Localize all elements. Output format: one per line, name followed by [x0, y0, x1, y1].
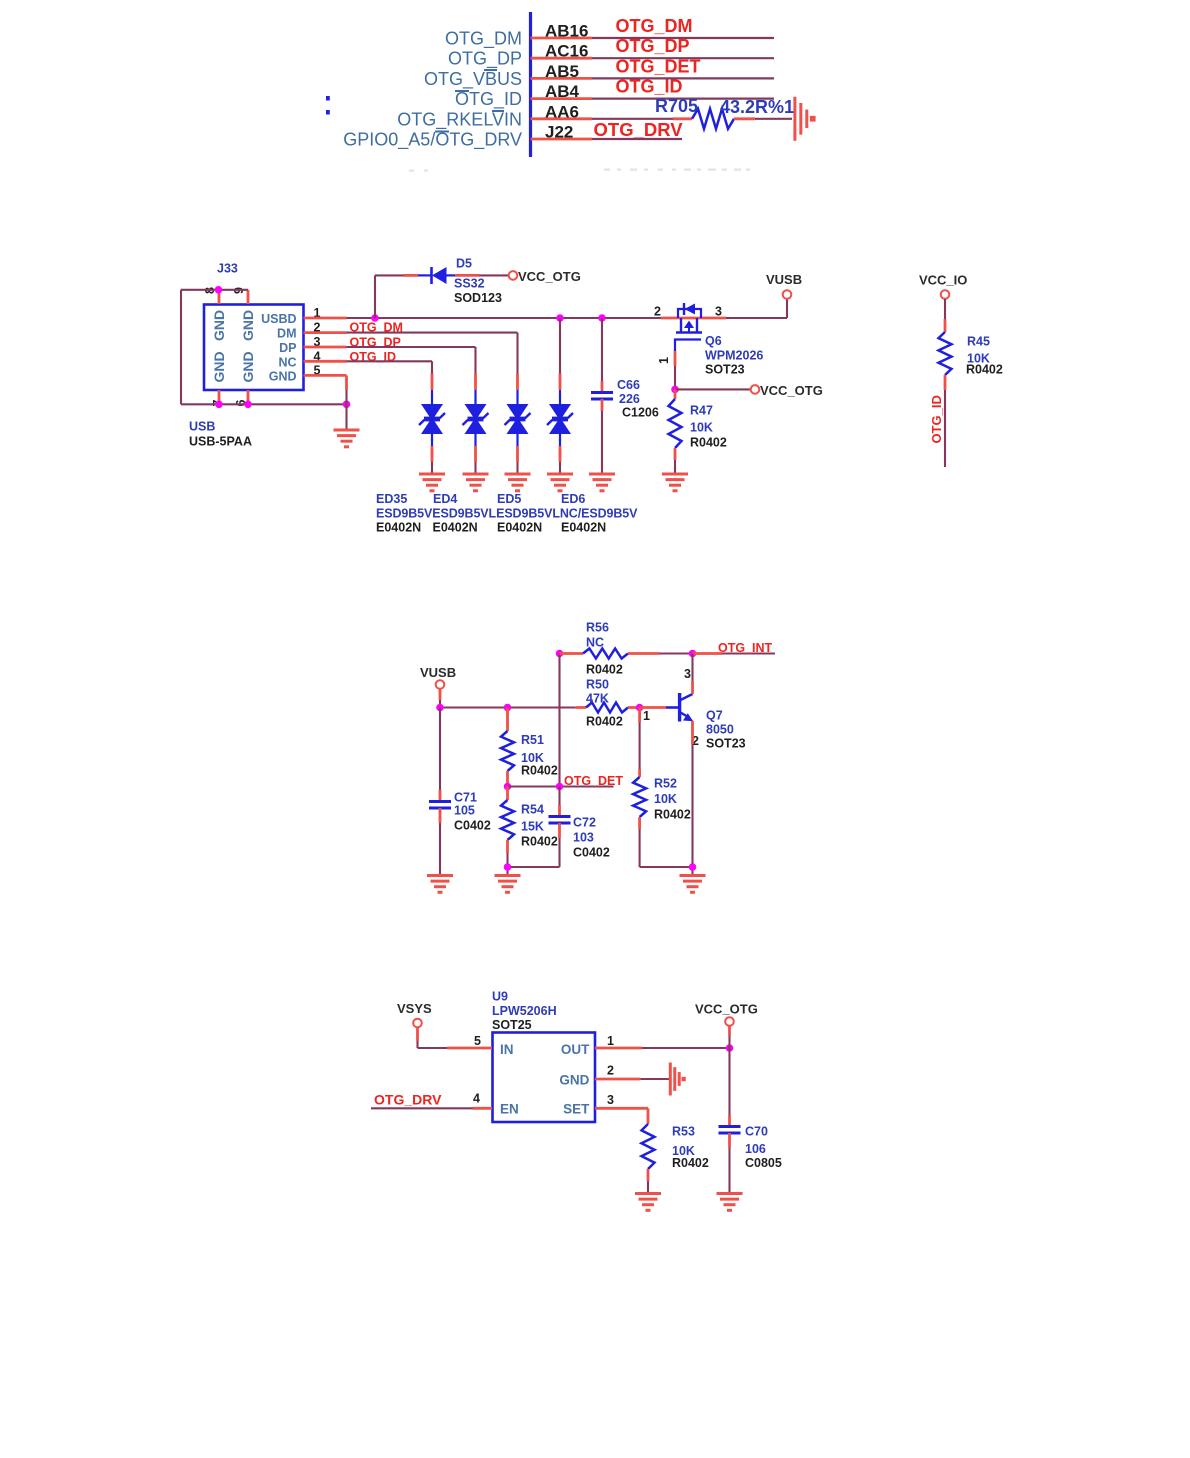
svg-text:D5: D5: [456, 257, 472, 271]
svg-text:10K: 10K: [690, 421, 713, 435]
labels E0402N footprints: [376, 521, 606, 535]
pin stub wire AB5: [531, 77, 593, 80]
svg-text:R50: R50: [586, 678, 609, 692]
net label OTG_ID: [350, 350, 397, 364]
svg-text:3: 3: [715, 305, 722, 319]
ground R54/C72: [495, 876, 521, 893]
wire VBUS up to D5: [375, 275, 418, 318]
chip port label OTG_RKELVIN: [397, 109, 522, 130]
svg-text:J33: J33: [217, 262, 238, 276]
wire VUSB rail: [440, 706, 576, 708]
overbar OTG_VBUS B: [484, 69, 497, 71]
svg-text:OTG_VBUS: OTG_VBUS: [424, 69, 522, 90]
svg-text:USB: USB: [189, 420, 215, 434]
ESD diode ED6: [547, 374, 573, 474]
wire Q7 collector: [691, 654, 694, 695]
svg-text:SOT23: SOT23: [706, 737, 746, 751]
svg-text:GND: GND: [269, 369, 297, 383]
svg-text:ED5: ED5: [497, 492, 521, 506]
ground Q7 emitter: [680, 876, 706, 893]
svg-text:R45: R45: [967, 335, 990, 349]
ground R53: [635, 1194, 661, 1211]
svg-text:OTG_DET: OTG_DET: [564, 774, 623, 788]
pin 2 label Q6: [654, 305, 661, 319]
svg-text:10K: 10K: [654, 792, 677, 806]
svg-text:R47: R47: [690, 404, 713, 418]
overbar OTG_RKELVIN V: [492, 110, 504, 112]
pin 4 label U9: [473, 1091, 480, 1105]
svg-text:VUSB: VUSB: [420, 665, 456, 680]
wire Q6 drain to VUSB: [726, 299, 787, 318]
pin 1 label U9: [607, 1034, 614, 1048]
svg-text:OTG_DP: OTG_DP: [616, 36, 690, 56]
net label OTG_DP: [350, 335, 401, 349]
svg-text:VCC_OTG: VCC_OTG: [760, 383, 823, 398]
ground R47: [662, 474, 688, 491]
svg-text:R0402: R0402: [521, 764, 558, 778]
svg-text:C0402: C0402: [454, 819, 491, 833]
pin stub wire AB16: [531, 37, 593, 40]
svg-text:SOT23: SOT23: [705, 363, 745, 377]
svg-text:NC: NC: [278, 355, 296, 369]
svg-text:IN: IN: [500, 1042, 514, 1057]
pin labels GND (shield) inside J33: [211, 310, 256, 383]
pin numbers 8 9 (top shield pins): [203, 287, 246, 294]
wire bottom right net: [640, 867, 693, 876]
svg-text:R0402: R0402: [586, 715, 623, 729]
svg-text:WPM2026: WPM2026: [705, 349, 763, 363]
capacitor C70: [719, 1048, 741, 1194]
svg-text:SS32: SS32: [454, 277, 485, 291]
top shield pin stubs: [219, 290, 248, 304]
svg-text:NC: NC: [586, 636, 604, 650]
label R45 10K R0402: [966, 335, 1003, 377]
svg-text:R0402: R0402: [690, 436, 727, 450]
net label OTG_DET: [564, 774, 623, 788]
wire net row 2: [592, 57, 774, 59]
wire net row 1: [592, 37, 774, 39]
svg-text:R0402: R0402: [654, 808, 691, 822]
power terminal VCC_OTG (Q6 gate): [751, 383, 823, 398]
svg-text:OTG_ID: OTG_ID: [929, 395, 944, 443]
svg-text:SOD123: SOD123: [454, 291, 502, 305]
svg-text:3: 3: [607, 1093, 614, 1107]
stray colon mark: [326, 96, 330, 115]
svg-text:OTG_ID: OTG_ID: [455, 89, 522, 110]
bottom shield pin stubs: [219, 390, 248, 404]
net label OTG_ID (rotated): [929, 395, 944, 443]
label R53 10K R0402: [672, 1125, 709, 1171]
label R54 15K R0402: [521, 803, 558, 849]
wire OTG_ID row to ED35: [347, 361, 433, 373]
junction OTG_DET R51: [504, 783, 512, 791]
svg-text:LPW5206H: LPW5206H: [492, 1004, 557, 1018]
wire Q6 gate down: [674, 351, 677, 389]
power terminal VCC_OTG (U9): [695, 1002, 758, 1026]
pin 2 label U9: [607, 1064, 614, 1078]
wire GND pin to termination: [595, 1078, 669, 1081]
transistor Q7 NPN: [680, 693, 694, 722]
label R47 10K R0402: [690, 404, 727, 450]
wire VBUS row: [347, 317, 662, 319]
wire shield bottom to gnd: [181, 403, 347, 405]
wire R56 left vertical: [558, 654, 560, 787]
svg-text:VCC_OTG: VCC_OTG: [518, 269, 581, 284]
chip port label OTG_DP: [448, 49, 522, 70]
svg-text:R52: R52: [654, 777, 677, 791]
net label OTG_DP row 2: [616, 36, 690, 56]
label C70 106 C0805: [745, 1125, 782, 1171]
chip edge bus line U0: [529, 12, 532, 157]
overbar OTG_ID O: [455, 90, 469, 92]
svg-text:43.2R%1: 43.2R%1: [720, 97, 794, 117]
pin number AB5: [545, 62, 579, 81]
ground C71: [427, 876, 453, 893]
svg-text:E0402N: E0402N: [497, 521, 542, 535]
junction VBUS ED6: [556, 314, 564, 322]
svg-text:3: 3: [684, 667, 691, 681]
power terminal VUSB (detect): [420, 665, 456, 689]
ground ED6: [547, 474, 573, 491]
pin 1 label Q7: [643, 709, 650, 723]
svg-text:OUT: OUT: [561, 1042, 590, 1057]
svg-text:OTG_DRV: OTG_DRV: [374, 1092, 442, 1108]
svg-text:E0402N: E0402N: [376, 521, 421, 535]
wire D5 to VCC_OTG: [455, 274, 509, 277]
svg-text:OTG_DET: OTG_DET: [616, 56, 701, 76]
ESD diode ED35: [419, 374, 445, 474]
svg-text:Q7: Q7: [706, 709, 723, 723]
label D5 SS32 SOD123: [454, 257, 502, 306]
ground ED5: [505, 474, 531, 491]
wire OUT to VCC_OTG: [595, 1047, 730, 1050]
junction bottom emitter: [689, 863, 697, 871]
chip port label OTG_DM: [445, 29, 522, 50]
svg-text:1: 1: [657, 357, 671, 364]
svg-text:C0402: C0402: [573, 846, 610, 860]
svg-text:C70: C70: [745, 1125, 768, 1139]
svg-text:USBD: USBD: [261, 312, 296, 326]
net label OTG_ID row 4: [616, 77, 683, 97]
pin stub wire AA6: [531, 117, 593, 120]
resistor R52: [633, 708, 646, 868]
svg-text:GND: GND: [211, 351, 227, 382]
pin stub wire AC16: [531, 57, 593, 60]
svg-text:R0402: R0402: [521, 835, 558, 849]
junction rail VUSB: [436, 704, 444, 712]
pin 3 label Q7: [684, 667, 691, 681]
pin names J33 right side: [261, 312, 296, 383]
svg-text:DM: DM: [277, 327, 296, 341]
svg-text:R51: R51: [521, 733, 544, 747]
svg-text:USB-5PAA: USB-5PAA: [189, 435, 252, 449]
net label OTG_INT: [718, 641, 773, 655]
wire OTG_INT: [693, 652, 776, 655]
wire OTG_DM row to ED5: [347, 333, 518, 374]
power terminal VSYS: [397, 1001, 432, 1027]
net label OTG_DM: [350, 321, 403, 335]
svg-text:106: 106: [745, 1142, 766, 1156]
capacitor C71: [429, 708, 451, 876]
junction gate/R47/VCC_OTG: [671, 386, 679, 394]
transistor Q6 PMOS body: [675, 303, 702, 351]
svg-text:C1206: C1206: [622, 406, 659, 420]
svg-text:ED35: ED35: [376, 492, 407, 506]
pin stub Q6 left (wire runs behind symbol): [661, 317, 726, 320]
wire OTG_DRV to EN: [371, 1107, 492, 1109]
pin stub wires J33 1-5: [304, 318, 347, 375]
wire shield top: [181, 290, 248, 405]
svg-text:ESD9B5VESD9B5VLESD9B5VLNC/ESD9: ESD9B5VESD9B5VLESD9B5VLNC/ESD9B5V: [376, 507, 638, 521]
pin number AB4: [545, 82, 580, 101]
pin number AA6: [545, 102, 579, 121]
svg-text:GND: GND: [211, 310, 227, 341]
pin numbers 1-5 J33: [314, 306, 321, 377]
pin 2 label Q7: [692, 734, 699, 748]
svg-text:OTG_INT: OTG_INT: [718, 641, 773, 655]
junction bottom R54: [504, 863, 512, 871]
labels ESD9B5V values: [376, 507, 638, 521]
svg-text:4: 4: [473, 1091, 480, 1105]
svg-text:VUSB: VUSB: [766, 272, 802, 287]
svg-text:VCC_OTG: VCC_OTG: [695, 1002, 758, 1017]
junction VBUS D5: [371, 314, 379, 322]
resistor R56 (NC): [560, 649, 693, 659]
junction OUT node: [726, 1044, 734, 1052]
pin 3 label U9: [607, 1093, 614, 1107]
pin number J22: [545, 123, 573, 142]
labels ED35 ED4 ED5 ED6: [376, 492, 585, 506]
label C66 226 C1206: [617, 378, 659, 420]
wire base stub: [640, 706, 678, 709]
label R52 10K R0402: [654, 777, 691, 822]
svg-text:47K: 47K: [586, 692, 609, 706]
resistor R51: [501, 708, 514, 787]
svg-text:R53: R53: [672, 1125, 695, 1139]
resistor R54: [501, 787, 514, 868]
label Q7 8050 SOT23: [706, 709, 746, 751]
faint ghost text marks: [409, 169, 750, 172]
chip port label GPIO0_A5/OTG_DRV: [343, 130, 522, 151]
svg-text:C0805: C0805: [745, 1156, 782, 1170]
chip port label OTG_VBUS: [424, 69, 522, 90]
svg-text:226: 226: [619, 392, 640, 406]
svg-text:OTG_RKELVIN: OTG_RKELVIN: [397, 109, 522, 130]
resistor R47: [669, 389, 682, 473]
svg-text:EN: EN: [500, 1101, 519, 1116]
wire net row 3: [592, 77, 774, 79]
power terminal VCC_OTG (D5): [509, 269, 581, 284]
junction rail R51: [504, 704, 512, 712]
svg-text:R0402: R0402: [586, 663, 623, 677]
svg-text:OTG_DRV: OTG_DRV: [594, 119, 684, 140]
pin 3 label Q6: [715, 305, 722, 319]
svg-text:C72: C72: [573, 816, 596, 830]
svg-text:103: 103: [573, 831, 594, 845]
svg-text:E0402N: E0402N: [433, 521, 478, 535]
net label OTG_DRV row 6: [594, 119, 684, 140]
svg-text:R0402: R0402: [966, 363, 1003, 377]
svg-text:1: 1: [643, 709, 650, 723]
junction OTG_DET C72: [556, 783, 564, 791]
overbar GPIO0_A5/OTG_DRV O: [435, 131, 449, 133]
pin stub wire AB4: [531, 97, 593, 100]
pin number AB16: [545, 22, 588, 41]
svg-text:2: 2: [607, 1064, 614, 1078]
svg-text:OTG_DP: OTG_DP: [448, 49, 522, 70]
svg-text:8050: 8050: [706, 723, 734, 737]
wire OTG_DET: [508, 785, 614, 787]
wire gnd drop J33: [345, 404, 347, 430]
ground C70: [717, 1194, 743, 1211]
svg-text:ED4: ED4: [433, 492, 457, 506]
svg-text:5: 5: [474, 1034, 481, 1048]
ESD diode ED4: [463, 374, 489, 474]
pin 5 label U9: [474, 1034, 481, 1048]
svg-text:1: 1: [607, 1034, 614, 1048]
svg-text:C71: C71: [454, 791, 477, 805]
pin number AC16: [545, 42, 588, 61]
label C72 103 C0402: [573, 816, 610, 860]
ground ED35: [419, 474, 445, 491]
pin names U9: [500, 1042, 590, 1117]
wire ED6 drop: [559, 318, 561, 374]
svg-text:ED6: ED6: [561, 492, 585, 506]
label R51 10K R0402: [521, 733, 558, 778]
label R56 NC R0402: [586, 621, 623, 677]
svg-text:DP: DP: [279, 341, 296, 355]
connector J33 body: [204, 305, 304, 391]
junction bottom shield pins: [215, 401, 350, 409]
net label OTG_DRV (EN): [374, 1092, 442, 1108]
label Q6 WPM2026 SOT23: [705, 334, 763, 377]
svg-text:SOT25: SOT25: [492, 1018, 532, 1032]
svg-text:SET: SET: [563, 1101, 590, 1116]
svg-text:R54: R54: [521, 803, 544, 817]
label C71 105 C0402: [454, 791, 491, 833]
wire AA6 to R705: [592, 118, 692, 120]
label R705 43.2R%1: [655, 96, 794, 117]
svg-text:15K: 15K: [521, 820, 544, 834]
svg-text:GND: GND: [240, 310, 256, 341]
svg-text:GND: GND: [559, 1072, 589, 1087]
regulator U9 body: [493, 1033, 596, 1123]
wire VUSB down: [439, 689, 442, 708]
svg-text:OTG_DM: OTG_DM: [616, 16, 693, 36]
junction top shield: [215, 286, 223, 294]
svg-text:U9: U9: [492, 990, 508, 1004]
junction VBUS C66: [598, 314, 606, 322]
pin 1 label Q6 (rotated): [657, 357, 671, 364]
ground C66: [589, 474, 615, 491]
capacitor C66: [591, 318, 613, 474]
svg-text:E0402N: E0402N: [561, 521, 606, 535]
label USB USB-5PAA: [189, 420, 252, 449]
net label OTG_DM row 1: [616, 16, 693, 36]
label R50 47K R0402: [586, 678, 623, 729]
svg-text:GPIO0_A5/OTG_DRV: GPIO0_A5/OTG_DRV: [343, 130, 522, 151]
wire OTG_DP row to ED4: [347, 347, 476, 374]
wire to VCC_OTG terminal: [675, 388, 751, 390]
svg-text:Q6: Q6: [705, 334, 722, 348]
wire Q7 emitter down: [691, 721, 694, 867]
net label OTG_DET row 3: [616, 56, 701, 76]
svg-text:VCC_IO: VCC_IO: [919, 273, 967, 288]
svg-text:2: 2: [654, 305, 661, 319]
wire VCC_OTG down: [728, 1026, 731, 1048]
label U9 LPW5206H SOT25: [492, 990, 557, 1033]
svg-text:R0402: R0402: [672, 1156, 709, 1170]
ground termination U9 GND: [670, 1063, 686, 1096]
ground J33: [334, 430, 360, 447]
svg-text:VSYS: VSYS: [397, 1001, 432, 1016]
wire SET to R53: [595, 1108, 648, 1124]
ESD diode ED5: [505, 374, 531, 474]
resistor R45: [939, 299, 952, 467]
svg-text:OTG_ID: OTG_ID: [616, 77, 683, 97]
wire pin5 GND to shield net: [345, 375, 348, 404]
svg-text:R705: R705: [655, 96, 698, 116]
svg-text:105: 105: [454, 804, 475, 818]
power terminal VUSB: [766, 272, 802, 299]
svg-text:R56: R56: [586, 621, 609, 635]
svg-text:C66: C66: [617, 378, 640, 392]
resistor R50: [576, 703, 640, 713]
wire VSYS to IN: [418, 1028, 493, 1049]
svg-text:GND: GND: [240, 351, 256, 382]
diode D5: [418, 267, 455, 284]
ground termination (rotated earth) top: [795, 97, 816, 141]
wire net row 4: [592, 97, 774, 99]
resistor R705: [692, 109, 734, 129]
pin numbers 7 6 (bottom shield pins): [211, 400, 248, 407]
resistor R53: [642, 1124, 655, 1194]
svg-text:OTG_DM: OTG_DM: [445, 29, 522, 50]
capacitor C72: [549, 787, 571, 868]
chip port label OTG_ID: [455, 89, 522, 110]
junction R56 right / collector: [689, 650, 697, 658]
ground ED4: [463, 474, 489, 491]
pin stub wire J22: [531, 138, 593, 141]
wire bottom left net: [508, 867, 560, 876]
wire net row 6: [592, 138, 682, 140]
junction base node: [636, 704, 644, 712]
wire R705 to termination: [734, 117, 792, 120]
connector J33 refdes: [217, 262, 238, 276]
power terminal VCC_IO: [919, 273, 967, 299]
junction R56 left: [556, 650, 564, 658]
